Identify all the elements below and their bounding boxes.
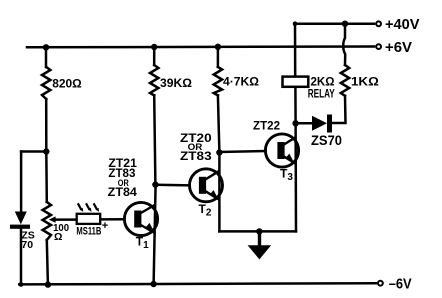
wire 4.7K top lead <box>217 47 220 67</box>
wire +6V rail <box>27 45 374 48</box>
transistor T3 <box>265 134 298 167</box>
wire T1 collector-emitter vertical <box>154 185 156 285</box>
svg-text:–6V: –6V <box>389 276 412 293</box>
node zener branch <box>43 148 49 154</box>
zener ZS70 symbol <box>10 212 30 229</box>
wire zener top lead <box>20 152 23 213</box>
wire diode anode to T3 node <box>296 122 312 125</box>
svg-text:RELAY: RELAY <box>308 89 335 101</box>
wire -6V rail <box>19 283 376 284</box>
wire zener branch horizontal <box>21 150 46 153</box>
svg-text:+40V: +40V <box>385 16 420 33</box>
wire 39K to T1 collector node <box>154 95 155 184</box>
wire T1 node to T2 base <box>155 184 189 187</box>
diode ZS70 <box>312 115 332 133</box>
node +40V 1K junction <box>342 21 348 27</box>
resistor 4.7K <box>214 67 222 96</box>
svg-text:T3: T3 <box>280 167 293 184</box>
resistor 39K <box>150 65 158 95</box>
node 39K top <box>151 44 157 50</box>
wire relay to +40V vertical <box>294 24 297 77</box>
node ground junction <box>256 228 262 234</box>
wire 1K bottom to diode cathode <box>332 96 346 123</box>
svg-text:820Ω: 820Ω <box>52 76 82 90</box>
node T2 collector <box>216 149 222 155</box>
photocell MS11B box <box>77 214 101 224</box>
wire T2 collector-emitter vertical <box>218 153 221 232</box>
wire 100R top lead <box>45 152 48 203</box>
node +40V relay corner <box>293 21 298 26</box>
svg-text:70: 70 <box>21 239 33 251</box>
relay 2K coil <box>283 77 309 87</box>
node T3 collector <box>292 120 298 126</box>
wire T2 node to T3 base <box>219 151 265 152</box>
wire emitter ground bus <box>219 230 296 233</box>
node T1 emitter bottom <box>150 281 156 287</box>
svg-text:T2: T2 <box>199 202 212 219</box>
wire wiper arm <box>54 218 77 221</box>
wiper arrowhead <box>49 216 56 222</box>
wire 820R top lead <box>45 47 48 67</box>
svg-text:1KΩ: 1KΩ <box>351 74 379 88</box>
wire zener bottom lead <box>20 229 23 284</box>
wire 39K top lead <box>153 47 156 65</box>
resistor 1K <box>341 65 349 96</box>
svg-text:Ω: Ω <box>54 231 62 243</box>
svg-text:T1: T1 <box>136 235 149 252</box>
wire +40V rail <box>295 22 374 25</box>
wire 4.7K to T2 collector node <box>218 95 220 152</box>
terminal -6V <box>378 281 383 286</box>
resistor 100R potentiometer <box>43 202 51 240</box>
wire 100R bottom lead <box>47 240 48 285</box>
wire relay bottom to T3 collector node <box>294 87 297 124</box>
transistor T2 <box>190 169 223 202</box>
svg-text:4·7KΩ: 4·7KΩ <box>223 75 259 89</box>
wire 1K top lead <box>343 24 345 65</box>
svg-text:ZT83: ZT83 <box>180 149 212 163</box>
wire 820R bottom to junction <box>45 99 48 152</box>
photocell MS11B light arrows <box>78 203 99 212</box>
resistor 820R <box>42 67 50 99</box>
svg-text:ZT84: ZT84 <box>108 187 138 199</box>
svg-text:2KΩ: 2KΩ <box>311 74 335 88</box>
ground symbol <box>248 231 272 259</box>
node 4.7K top <box>215 44 221 50</box>
svg-text:ZS70: ZS70 <box>311 133 342 148</box>
terminal +40V <box>376 21 381 26</box>
node T1 collector <box>152 181 158 187</box>
wire T3 collector-emitter vertical <box>294 123 297 231</box>
node 100R bottom <box>45 281 51 287</box>
terminal +6V <box>376 44 381 49</box>
node 820R top <box>43 44 49 50</box>
svg-text:+6V: +6V <box>385 39 412 56</box>
transistor T1 <box>124 202 157 235</box>
svg-text:+: + <box>102 220 108 232</box>
svg-text:39KΩ: 39KΩ <box>160 76 192 90</box>
svg-text:ZT22: ZT22 <box>253 121 280 133</box>
svg-text:MS11B: MS11B <box>76 226 101 238</box>
node zener bottom <box>19 282 24 287</box>
wire MS11B to T1 base <box>100 218 124 221</box>
